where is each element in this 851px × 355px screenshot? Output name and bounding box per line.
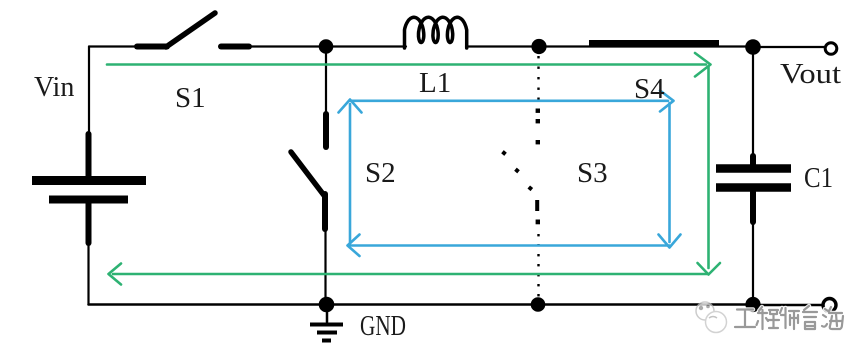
svg-text:S1: S1 (175, 82, 206, 114)
wire battery to bottom (87, 243, 89, 305)
wire node A down (325, 47, 327, 115)
node GND junction (319, 297, 335, 313)
wire bottom to output terminal (753, 304, 822, 307)
wire Vin branch (88, 47, 90, 135)
switch S4 (closed bar) (589, 40, 719, 46)
capacitor C1 (716, 156, 791, 222)
switch S3 (open, dotted branch) (501, 56, 540, 303)
svg-text:S2: S2 (365, 157, 396, 189)
terminal Vout (825, 43, 837, 55)
node A (319, 39, 334, 54)
wire C1 to bottom (752, 222, 754, 305)
node D bottom middle (531, 297, 546, 312)
green current loop (107, 53, 720, 285)
node E bottom right (745, 297, 760, 312)
svg-text:S4: S4 (634, 73, 665, 105)
svg-text:C1: C1 (804, 162, 833, 194)
watermark text 工程师看海 (735, 306, 843, 329)
wire S1 to node A (249, 45, 326, 47)
wire bottom rail (89, 303, 754, 306)
node C (745, 39, 761, 55)
terminal output bottom (823, 299, 836, 312)
svg-text:Vin: Vin (34, 72, 74, 103)
wire S2 to bottom (324, 229, 326, 305)
svg-text:Vout: Vout (780, 59, 841, 90)
svg-text:GND: GND (360, 310, 406, 342)
wire L1 to node B (466, 45, 539, 47)
switch S1 (137, 13, 249, 47)
wire top left horizontal (89, 45, 137, 47)
wire node C to Vout terminal (753, 46, 825, 48)
cyan current loop (339, 91, 681, 257)
wire node A to L1 (326, 45, 406, 47)
switch S2 (291, 114, 326, 229)
wire node B to S4 (539, 45, 753, 47)
svg-text:L1: L1 (419, 67, 451, 99)
wire C1 branch top (752, 47, 754, 156)
battery Vin (32, 134, 146, 243)
watermark logo (696, 302, 727, 333)
ground (310, 305, 343, 341)
inductor L1 (405, 17, 467, 48)
svg-text:S3: S3 (577, 157, 608, 189)
node B (531, 39, 546, 54)
